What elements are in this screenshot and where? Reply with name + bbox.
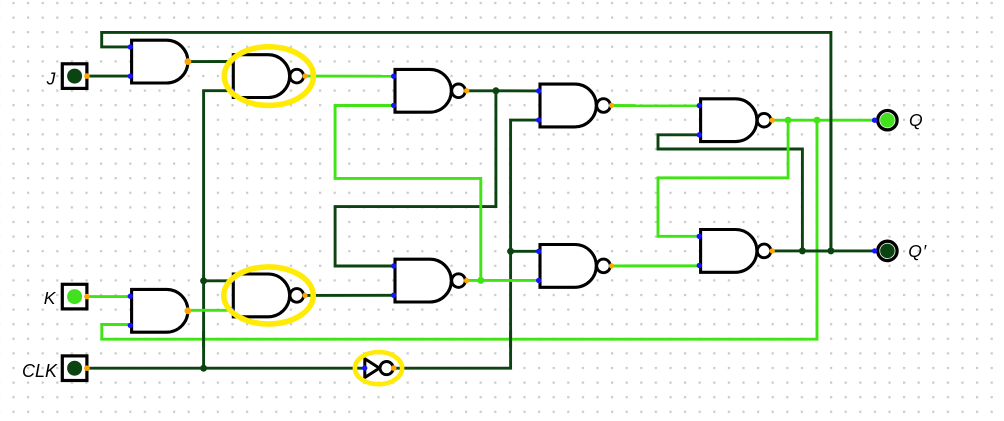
wire: Q' feedback top loop to G1 (dark) bbox=[102, 32, 831, 250]
nand-gate G2 bbox=[233, 55, 307, 98]
wire: Q feedback to G9 (bright) bbox=[102, 120, 817, 339]
svg-text:J: J bbox=[46, 68, 56, 88]
input pin J bbox=[62, 64, 89, 89]
input stubs G10 bbox=[229, 278, 234, 283]
wire: G8 output to Q' pin (dark) bbox=[772, 249, 875, 252]
input stub NOT gate bbox=[362, 365, 367, 370]
nand-gate G3 bbox=[395, 69, 469, 112]
highlight ellipse around G2 bbox=[224, 47, 313, 106]
wire: G6 output to G7 (bright) bbox=[467, 279, 539, 282]
wire: G1 output to G2 (dark) bbox=[188, 60, 233, 63]
wire: CLK branch to G10 (dark) bbox=[204, 279, 233, 282]
nand-gate G8 bbox=[701, 230, 775, 273]
junction Q-G9 bbox=[814, 117, 821, 124]
and-gate G1 bbox=[132, 40, 192, 83]
junction G6-out bbox=[477, 277, 484, 284]
input pin CLK bbox=[62, 356, 89, 381]
wire: G10 output to G6 (dark) bbox=[306, 294, 395, 297]
input stubs G4 bbox=[536, 88, 541, 93]
wire: G4 output to G5 (bright) bbox=[611, 104, 699, 107]
input stubs G6 bbox=[391, 263, 396, 268]
input stubs G9 bbox=[128, 294, 133, 299]
wire: NOT output branch to G7 (dark) bbox=[511, 250, 539, 253]
wire: Q' top loop vertical overdraw (dark) bbox=[829, 110, 832, 251]
wire: CLK vertical riser to G2 (dark) bbox=[204, 91, 233, 369]
junction G3-out bbox=[492, 87, 499, 94]
wire: K to G9 (bright) bbox=[87, 295, 131, 298]
nand-gate G5 bbox=[701, 99, 775, 142]
and-gate G9 bbox=[132, 289, 192, 332]
junction CLK-riser bbox=[200, 365, 207, 372]
wire: G3 output branch down to G6 (dark) bbox=[335, 91, 496, 266]
junction Q'-toploop bbox=[827, 247, 834, 254]
wire: G5 output to Q pin (bright) bbox=[772, 119, 875, 122]
input stubs G5 bbox=[697, 103, 702, 108]
input stubs G7 bbox=[536, 249, 541, 254]
svg-text:CLK: CLK bbox=[22, 361, 58, 381]
wire: Q' line overdraw over green vertical (dark) bbox=[806, 249, 828, 252]
input stubs G3 bbox=[391, 74, 396, 79]
input stubs G1 bbox=[128, 44, 133, 49]
input stubs G8 bbox=[697, 234, 702, 239]
wire: G6 feedback up to G3 (bright) bbox=[335, 106, 481, 281]
nand-gate G10 bbox=[233, 274, 307, 317]
wire: CLK trunk to NOT gate (dark) bbox=[87, 367, 365, 370]
output pin Q bbox=[872, 111, 897, 130]
wire: NOT-CLK riser overdraw at bottom green crossing (dark) bbox=[509, 331, 512, 348]
wire: G7 output to G8 (bright) bbox=[611, 264, 699, 267]
svg-text:Q: Q bbox=[909, 110, 923, 130]
wire: CLK riser overdraw at bottom green crossing (dark) bbox=[202, 331, 205, 348]
highlight ellipse around G10 bbox=[224, 267, 313, 324]
wire: Q cross-couple to G8 (bright) bbox=[658, 120, 788, 236]
junction CLK-G10 bbox=[200, 277, 207, 284]
svg-text:K: K bbox=[44, 288, 57, 308]
nand-gate G7 bbox=[540, 245, 614, 288]
not-gate U1 (inverter on CLK) bbox=[365, 359, 397, 378]
input stubs G2 bbox=[229, 59, 234, 64]
wire: J to G1 (dark) bbox=[87, 75, 131, 78]
wire: Q' cross-couple to G5 (dark) bbox=[658, 135, 802, 251]
junction Q-G8 bbox=[785, 117, 792, 124]
wire: NOT output riser to G4 (dark) bbox=[394, 120, 539, 368]
wire: G3 output to G4 (dark) bbox=[467, 89, 539, 92]
wire: G9 output to G10 (bright) bbox=[188, 309, 233, 312]
wire: G2 output to G3 (bright) bbox=[306, 75, 395, 78]
highlight ellipse around NOT gate bbox=[355, 352, 402, 384]
nand-gate G6 bbox=[395, 259, 469, 302]
output pin Q' bbox=[872, 241, 897, 260]
svg-text:Q′: Q′ bbox=[908, 241, 927, 261]
input pin K bbox=[62, 284, 89, 309]
junction Q'-G5 bbox=[799, 247, 806, 254]
nand-gate G4 bbox=[540, 84, 614, 127]
junction NOTCLK-G7 bbox=[507, 248, 514, 255]
